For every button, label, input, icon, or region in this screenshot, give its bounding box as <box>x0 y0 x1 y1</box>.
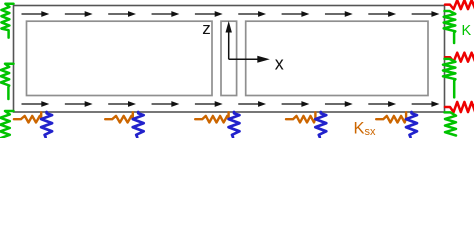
top shear flow arrow 6 <box>238 13 259 15</box>
bottom shear flow arrow 1 <box>22 103 43 105</box>
right green spring top <box>444 11 456 43</box>
left green spring middle <box>1 64 14 99</box>
top shear flow arrow 8 <box>325 13 346 15</box>
right red spring top <box>445 0 474 9</box>
bottom shear flow arrow 2 <box>65 103 86 105</box>
bottom orange spring 4 <box>286 112 315 122</box>
left cell <box>27 21 213 95</box>
svg-text:x: x <box>275 53 284 73</box>
left green spring top <box>1 4 13 38</box>
bottom shear flow arrow 10 <box>412 103 433 105</box>
top shear flow arrow 4 <box>152 13 173 15</box>
middle web cell <box>221 21 237 95</box>
bottom shear flow arrow 9 <box>368 103 389 105</box>
right red spring bottom <box>445 102 474 112</box>
top shear flow arrow 7 <box>282 13 303 15</box>
bottom orange spring 1 <box>14 112 41 122</box>
bottom orange spring 5 <box>376 112 406 122</box>
top shear flow arrow 10 <box>412 13 433 15</box>
right red spring middle <box>445 53 474 62</box>
bottom orange spring 3 <box>195 112 228 122</box>
bottom blue spring 5 <box>406 112 417 137</box>
bottom blue spring 1 <box>41 112 52 137</box>
z axis <box>228 32 230 60</box>
right cell <box>246 21 428 95</box>
top shear flow arrow 5 <box>195 13 216 15</box>
bottom shear flow arrow 8 <box>325 103 346 105</box>
bottom shear flow arrow 3 <box>108 103 129 105</box>
top shear flow arrow 1 <box>22 13 43 15</box>
svg-text:z: z <box>202 19 211 38</box>
top shear flow arrow 3 <box>108 13 129 15</box>
right green spring middle <box>443 59 455 98</box>
outer box wall <box>14 6 445 113</box>
left green spring bottom <box>0 111 13 138</box>
bottom blue spring 3 <box>229 112 240 137</box>
top shear flow arrow 9 <box>368 13 389 15</box>
x axis <box>229 58 259 60</box>
bottom blue spring 4 <box>315 112 326 137</box>
bottom orange spring 2 <box>105 112 133 122</box>
svg-text:K: K <box>462 23 472 39</box>
bottom blue spring 2 <box>133 112 144 137</box>
top shear flow arrow 2 <box>65 13 86 15</box>
right green spring bottom <box>445 112 457 135</box>
bottom shear flow arrow 6 <box>238 103 259 105</box>
bottom shear flow arrow 7 <box>282 103 303 105</box>
bottom shear flow arrow 5 <box>195 103 216 105</box>
bottom shear flow arrow 4 <box>152 103 173 105</box>
